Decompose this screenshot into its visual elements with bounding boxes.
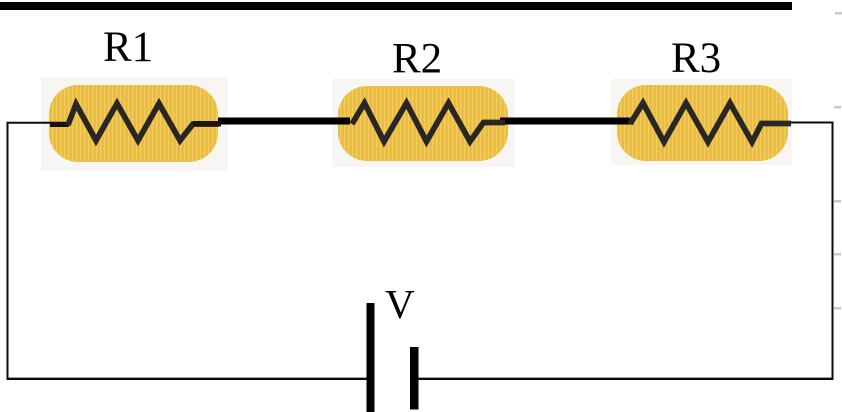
resistor R3 zigzag [630,103,791,142]
svg-text:V: V [385,281,415,327]
right edge tick 4 [834,253,841,256]
wire: thick link R1-R2 [218,118,350,125]
right edge tick 3 [834,200,841,203]
resistor R2 highlight halo [332,79,515,167]
battery V long plate [367,303,375,412]
resistor R1 highlight halo [41,77,228,171]
wire: bottom right segment [418,378,833,380]
resistor R1 left stub [50,123,69,128]
resistor R2 zigzag [352,103,505,142]
svg-text:R1: R1 [103,24,153,71]
battery V short plate [410,347,419,410]
wire: bottom left segment [7,378,367,380]
wire: top-right thin lead [789,123,833,381]
svg-text:R3: R3 [671,35,721,82]
wire: top-left thin lead [8,123,71,380]
resistor R3 highlight halo [611,79,792,165]
right edge tick 2 [834,106,841,109]
resistor R1 yellow marker body [49,85,218,162]
wire: thick link R2-R3 [500,118,630,125]
resistor R1 zigzag [68,104,219,141]
resistor R2 yellow marker body [338,86,508,161]
top border bar [0,2,792,10]
right edge tick 1 [835,12,842,15]
right edge tick 5 [834,307,841,310]
resistor R1 exit stub [193,121,221,127]
resistor R3 yellow marker body [617,85,788,161]
svg-text:R2: R2 [392,36,442,83]
